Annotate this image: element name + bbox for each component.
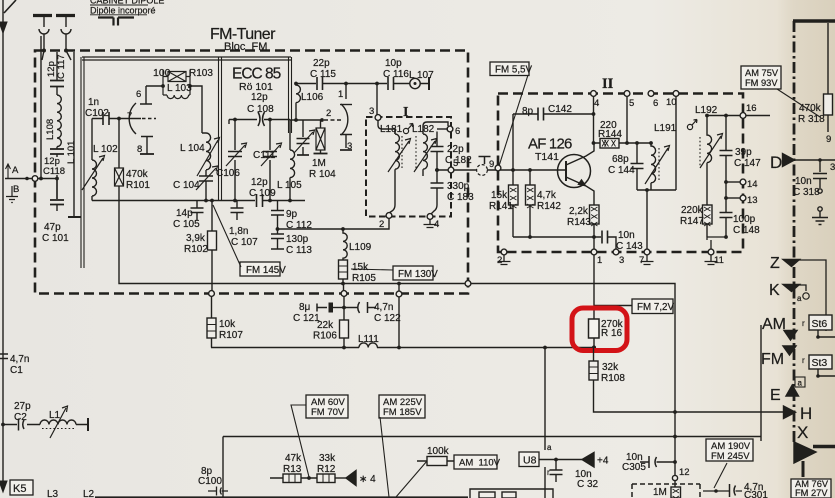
C113 leads and end bar xyxy=(271,229,284,249)
resistor R144 body with xxx xyxy=(600,139,619,149)
wire node399 drop to bus xyxy=(398,284,400,348)
node circle on tuner bottom at R102 xyxy=(209,291,215,297)
ground under node 11 xyxy=(705,255,718,265)
FM tuner shield dashed enclosure xyxy=(35,51,468,294)
junction C147 bottom xyxy=(724,180,728,184)
svg-text:C 117: C 117 xyxy=(56,54,67,79)
svg-text:4,7n: 4,7n xyxy=(10,354,29,365)
svg-text:5: 5 xyxy=(453,158,458,169)
capacitor C105 plates xyxy=(191,208,204,213)
inductor L104 xyxy=(202,133,211,170)
R105 inner stripes xyxy=(339,266,348,272)
svg-text:1: 1 xyxy=(338,89,343,100)
svg-text:R103: R103 xyxy=(189,68,213,79)
node circle 6 on box I xyxy=(447,126,453,132)
inner shield partition double line xyxy=(219,57,222,200)
svg-text:B: B xyxy=(13,184,19,195)
emitter arrowhead xyxy=(578,180,586,187)
svg-text:FM 245V: FM 245V xyxy=(711,451,750,462)
node circle 4 on box I bottom xyxy=(427,214,433,220)
wire C102 left drop to L102 xyxy=(91,119,93,161)
svg-text:R108: R108 xyxy=(601,373,625,384)
male adjust symbol in box II xyxy=(687,124,692,129)
junction R106 bottom on supply bus xyxy=(342,346,346,350)
inductor L192 xyxy=(707,116,712,206)
svg-text:C 108: C 108 xyxy=(247,104,274,115)
pointer line FM 145V xyxy=(213,205,241,267)
node circle 1 on box II bottom xyxy=(591,249,597,255)
wire L103 right lead down to L104 xyxy=(190,86,202,133)
wire: anode row y=83.5 xyxy=(296,83,429,85)
junction L103 right node xyxy=(188,84,192,88)
node circle 14 on box II right xyxy=(740,179,746,185)
svg-text:R 16: R 16 xyxy=(601,328,623,339)
junction L105 bottom xyxy=(288,199,292,203)
svg-text:K5: K5 xyxy=(13,483,26,495)
R147 bottom lead xyxy=(706,224,708,237)
node circle 11 on box II bottom xyxy=(708,249,714,255)
capacitor C144 branch xyxy=(636,143,638,190)
svg-text:2: 2 xyxy=(497,255,502,266)
capacitor C105 stub xyxy=(196,201,198,221)
A node circle on box edge xyxy=(32,176,38,182)
capacitor C2 series plates xyxy=(19,419,25,431)
svg-text:AF 126: AF 126 xyxy=(528,136,572,153)
capacitor C101 plates xyxy=(50,200,64,205)
L107 core symbol circle xyxy=(410,78,420,88)
svg-text:R106: R106 xyxy=(313,331,337,342)
capacitor C305 plates xyxy=(649,456,657,468)
junction caps row xyxy=(342,306,346,310)
wire: FM7,2V pointer wire xyxy=(594,305,632,307)
L192 trimmer arrow xyxy=(700,134,723,169)
A input arrow glyph xyxy=(6,164,11,178)
junction AGC vertical at bottom bus xyxy=(673,435,677,439)
C182 column leads xyxy=(436,132,438,184)
svg-text:6: 6 xyxy=(653,98,658,109)
capacitor C109 series plates on grid bus xyxy=(257,194,263,207)
junction R144 left node xyxy=(592,141,596,145)
svg-text:10n: 10n xyxy=(618,230,635,241)
node circle 5 on box II top xyxy=(624,91,630,97)
inner shield box top double line xyxy=(82,57,291,60)
triode2 cathode bar and pin3 lead xyxy=(340,135,352,149)
R105 bottom lead xyxy=(342,279,344,284)
resistor R108 body xyxy=(589,361,598,380)
triode1 grid-cap pin6 lead xyxy=(140,86,152,104)
resistor 100k body xyxy=(427,457,447,466)
svg-text:C 101: C 101 xyxy=(42,233,69,244)
variable capacitor C106 branch xyxy=(234,119,236,201)
C110 plates xyxy=(297,139,310,144)
wire C121 node drop xyxy=(343,297,345,308)
wire: IF output row y=170 xyxy=(437,169,566,171)
svg-text:FM 145V: FM 145V xyxy=(246,265,286,276)
R142 leads xyxy=(529,170,531,237)
capacitor C102 plates xyxy=(103,112,109,125)
svg-text:C 143: C 143 xyxy=(616,241,643,252)
tank bottom wire xyxy=(637,189,676,191)
capacitor C121 electrolytic plates xyxy=(317,304,327,312)
R144 leads xyxy=(594,142,652,144)
svg-text:1: 1 xyxy=(597,255,602,266)
svg-text:12p: 12p xyxy=(251,92,268,103)
svg-text:47k: 47k xyxy=(285,453,302,464)
C121 lead to junction xyxy=(333,307,344,309)
svg-text:2,2k: 2,2k xyxy=(569,206,589,217)
svg-text:St6: St6 xyxy=(812,318,828,330)
wire: R108 output to H arrow y=412 xyxy=(594,380,784,412)
C110 bottom bar xyxy=(297,154,309,156)
svg-text:R 104: R 104 xyxy=(309,169,336,180)
top-left feeder arrowhead xyxy=(4,0,16,13)
svg-text:12p: 12p xyxy=(251,177,268,188)
junction node5 column at R144 xyxy=(625,141,629,145)
resistor R82 body with xxx xyxy=(671,487,681,498)
grid dash of triode2 xyxy=(324,119,342,121)
pointer line AM 75V to R318 xyxy=(777,89,820,117)
svg-text:FM: FM xyxy=(761,351,784,368)
supply arrow at U8 row xyxy=(582,453,594,468)
a-box near K xyxy=(803,293,809,299)
svg-text:C301: C301 xyxy=(744,490,768,498)
wire C102 row xyxy=(92,118,120,120)
inductor L111 series on supply bus xyxy=(359,343,377,348)
wire node6 to C182 column xyxy=(437,128,448,130)
thick lead from X arrow to corner xyxy=(813,445,835,448)
L192 core dotted xyxy=(699,137,701,166)
wire: D row y=160 xyxy=(794,159,835,161)
L182 trimmer arrow xyxy=(414,139,437,173)
resistor R107 body xyxy=(207,318,216,338)
node circle 10 on box II top xyxy=(673,91,679,97)
junction base row at R142 xyxy=(528,168,532,172)
voltage box FM 5,5V xyxy=(490,62,529,76)
St6 connector box xyxy=(809,315,832,330)
tuning unit I dashed enclosure xyxy=(366,117,451,217)
svg-text:R142: R142 xyxy=(537,201,561,212)
svg-text:A: A xyxy=(12,165,19,176)
svg-text:L 105: L 105 xyxy=(277,180,302,191)
svg-text:100p: 100p xyxy=(733,214,756,225)
svg-text:11: 11 xyxy=(714,255,724,266)
variable capacitor C110 branch xyxy=(302,120,304,155)
L191 trimmer arrow xyxy=(645,146,670,185)
C106 trimmer arrow xyxy=(226,143,247,166)
svg-text:C118: C118 xyxy=(43,166,65,177)
svg-text:C 104: C 104 xyxy=(173,180,200,191)
capacitor C148 branch xyxy=(725,182,727,237)
ground below C318 xyxy=(812,218,828,225)
svg-text:L108: L108 xyxy=(45,119,56,140)
ground under node 7 xyxy=(641,255,654,265)
svg-text:I: I xyxy=(403,105,408,120)
wire: vertical drop x=223 to bottom modules xyxy=(222,437,224,498)
voltage box FM 145V xyxy=(240,262,280,276)
junction L1 tap xyxy=(1,423,5,427)
svg-text:L111: L111 xyxy=(358,334,379,345)
svg-text:C 113: C 113 xyxy=(286,245,312,256)
test point T probe at node 9 xyxy=(479,157,491,165)
svg-text:FM 27V: FM 27V xyxy=(795,488,828,498)
R13 leads xyxy=(270,477,317,479)
wire L181 bottom to node 2 xyxy=(389,173,395,213)
junction grid row left end xyxy=(294,118,298,122)
node circle 16 on box II right xyxy=(740,113,746,119)
wire C142 vertical to base row xyxy=(512,114,514,170)
svg-text:7: 7 xyxy=(127,111,132,122)
wire tank bottom to node 7 xyxy=(646,190,648,249)
capacitor C183 plates xyxy=(431,183,444,188)
junction R102 top xyxy=(210,199,214,203)
capacitor C147 branch xyxy=(725,116,727,183)
capacitor C32 plates xyxy=(550,470,563,475)
terminal bar after L107 xyxy=(428,77,430,90)
svg-text:R144: R144 xyxy=(598,129,622,140)
capacitor C116 plates xyxy=(388,77,394,90)
C318 connector pins xyxy=(818,189,822,193)
svg-text:3: 3 xyxy=(369,106,374,117)
svg-text:8: 8 xyxy=(137,144,142,155)
svg-text:r: r xyxy=(802,356,805,365)
svg-text:6: 6 xyxy=(455,126,460,137)
svg-text:C305: C305 xyxy=(622,462,646,473)
svg-text:10k: 10k xyxy=(219,319,236,330)
svg-text:a: a xyxy=(797,294,802,303)
inductor L103 bumps xyxy=(163,95,190,99)
resistor R101 body with X xyxy=(115,168,124,186)
svg-text:10: 10 xyxy=(666,97,677,108)
resistor R105 body xyxy=(339,260,348,279)
small terminal rects in bottom box xyxy=(479,492,495,498)
ground under node 2 xyxy=(498,255,511,265)
svg-text:130p: 130p xyxy=(286,234,309,245)
svg-text:100k: 100k xyxy=(427,446,450,457)
AF126 emitter lead with arrow xyxy=(566,177,594,205)
wire C108 row xyxy=(229,119,290,121)
wire: connector column x=545 a/r xyxy=(544,348,546,498)
triode 1 envelope arc xyxy=(129,103,136,134)
capacitor C122 plates xyxy=(358,302,368,313)
voltage box AM 225V / FM 185V xyxy=(379,395,425,418)
triode1 grid dash xyxy=(142,118,156,120)
pointer line AM 60V (stub and diagonal) xyxy=(291,405,309,477)
node circle 3 on box II bottom xyxy=(613,249,619,255)
R104 bottom bar xyxy=(314,153,328,155)
node circle on tuner bottom at 399 xyxy=(396,291,402,297)
C111 trimmer arrow xyxy=(261,143,282,166)
R103 leads xyxy=(163,70,190,95)
terminal bar under L101 xyxy=(68,216,81,218)
svg-text:C 112: C 112 xyxy=(286,220,312,231)
svg-text:3: 3 xyxy=(830,162,835,173)
junction on D row xyxy=(818,158,822,162)
svg-text:C100: C100 xyxy=(198,476,222,487)
svg-text:8μ: 8μ xyxy=(299,302,311,313)
wire L182 top to node 6 xyxy=(423,122,448,130)
svg-text:C 122: C 122 xyxy=(374,313,401,324)
C143 right lead to node 3 xyxy=(608,237,617,249)
svg-text:L 101: L 101 xyxy=(66,141,77,164)
svg-text:220k: 220k xyxy=(681,205,704,216)
inductor L182 with core dashes xyxy=(423,130,427,176)
wire: antenna right leg x=74 xyxy=(73,52,75,217)
triode 2 envelope arc xyxy=(341,104,348,135)
L1 core dotted xyxy=(42,428,74,430)
svg-text:T141: T141 xyxy=(535,151,559,163)
svg-text:+4: +4 xyxy=(597,456,609,467)
connector arrow FM xyxy=(783,346,796,355)
svg-text:2: 2 xyxy=(326,108,331,119)
svg-text:9: 9 xyxy=(489,159,494,170)
svg-text:C 105: C 105 xyxy=(173,219,200,230)
resistor R103 bowtie body xyxy=(168,72,186,82)
svg-text:22p: 22p xyxy=(313,58,330,69)
svg-text:C 318: C 318 xyxy=(793,187,820,198)
R12 lead to arrow xyxy=(335,477,346,479)
L181 core dotted line xyxy=(401,136,403,168)
svg-text:1n: 1n xyxy=(88,97,99,108)
svg-text:L182: L182 xyxy=(412,124,435,135)
capacitor C182 plates xyxy=(431,147,444,152)
wire node14 row xyxy=(726,181,740,183)
node circle 3 on box I xyxy=(375,115,381,121)
svg-text:C 182: C 182 xyxy=(445,155,472,166)
voltage box AM 60V / FM 70V xyxy=(306,395,348,418)
svg-text:47p: 47p xyxy=(44,222,61,233)
junction L106 top xyxy=(294,82,298,86)
capacitor C115 plates xyxy=(317,77,323,90)
capacitor C301 plates xyxy=(730,484,736,497)
R143 bottom lead xyxy=(593,224,595,249)
node circle 13 on box II right xyxy=(740,195,746,201)
C183 lead to node 4 xyxy=(431,188,437,214)
node circle 6 on box II top xyxy=(648,91,654,97)
svg-text:39p: 39p xyxy=(735,147,752,158)
wire: A input row xyxy=(5,178,32,180)
svg-text:22k: 22k xyxy=(317,320,334,331)
svg-text:33k: 33k xyxy=(319,453,336,464)
junction C111 bottom xyxy=(268,199,272,203)
junction C144 top xyxy=(635,141,639,145)
junction C148 top on node13 row xyxy=(724,196,728,200)
capacitor C142 plates xyxy=(538,108,544,121)
junction C108 row at C111 xyxy=(268,118,272,122)
resistor R108 leads xyxy=(593,348,595,362)
inductor L108 xyxy=(57,95,61,147)
capacitor C148 plates xyxy=(720,213,733,218)
junction C108 row left xyxy=(233,118,237,122)
voltage box AM 76V / FM 27V xyxy=(791,479,831,498)
chassis border thick top-right corner xyxy=(793,19,835,23)
resistor R142 body with xxx xyxy=(526,185,536,205)
small dipole symbol (dipole incorpore) xyxy=(98,18,134,26)
junction C182 on output row xyxy=(435,168,439,172)
triode1 pin8 ground bar xyxy=(140,153,154,155)
node circle 7 on box II bottom xyxy=(644,249,650,255)
svg-text:C106: C106 xyxy=(216,168,240,179)
svg-text:C 116: C 116 xyxy=(383,69,409,80)
resistor R147 body with xxx xyxy=(703,205,713,224)
capacitor C117 plates xyxy=(50,81,64,87)
St6 stub wire with junction xyxy=(818,330,835,337)
wire: antenna left leg x=41 xyxy=(40,36,42,179)
connector arrow H xyxy=(784,406,796,419)
svg-text:R143: R143 xyxy=(567,217,591,228)
connector arrow D xyxy=(783,154,795,167)
voltage box AM 110V xyxy=(454,455,497,469)
svg-text:Dipôle incorporé: Dipôle incorporé xyxy=(90,6,156,16)
svg-text:L 102: L 102 xyxy=(93,144,118,155)
wire: node16 row y=115.5 xyxy=(707,115,770,117)
svg-text:3,9k: 3,9k xyxy=(186,233,206,244)
dipole right down-lead with insulator hook xyxy=(61,17,71,51)
junction at antenna leg xyxy=(39,177,43,181)
svg-text:St3: St3 xyxy=(812,357,828,369)
wire C108 start drop xyxy=(228,120,230,125)
svg-text:1M: 1M xyxy=(653,487,667,498)
svg-text:10n: 10n xyxy=(795,176,812,187)
connector arrow E xyxy=(786,385,799,396)
supply arrow after R12 xyxy=(346,471,356,486)
connector big arrow X output xyxy=(794,442,816,463)
svg-text:R107: R107 xyxy=(219,330,243,341)
capacitor C305 lead xyxy=(640,461,675,463)
wire: L1 branch y=424.5 xyxy=(3,424,88,426)
svg-text:D: D xyxy=(770,153,782,172)
dipole left down-lead with insulator hook xyxy=(39,17,49,51)
svg-text:L 103: L 103 xyxy=(167,83,192,94)
svg-text:a: a xyxy=(547,443,552,452)
wire node4 column xyxy=(593,96,595,143)
junction triode2 anode node xyxy=(344,82,348,86)
svg-text:6: 6 xyxy=(136,89,141,100)
junction R13/R12 node xyxy=(307,476,311,480)
connector arrow Z xyxy=(783,260,800,267)
voltage box AM 190V / FM 245V xyxy=(706,439,753,461)
svg-text:r: r xyxy=(802,319,805,328)
svg-text:14: 14 xyxy=(747,179,758,190)
AF126 base bar xyxy=(565,161,567,181)
junction R105 on AGC bus xyxy=(341,282,345,286)
svg-text:C 144: C 144 xyxy=(608,165,635,176)
pointer line FM 5,5V to node 9 xyxy=(499,75,528,166)
connector arrow AM xyxy=(784,331,797,341)
voltage box FM 130V xyxy=(393,266,433,280)
svg-text:R13: R13 xyxy=(283,464,302,475)
svg-text:L2: L2 xyxy=(83,489,95,498)
wire C142 row xyxy=(513,113,594,115)
svg-text:2: 2 xyxy=(379,219,384,230)
junction node1 column top xyxy=(375,82,379,86)
junction bus at connector column xyxy=(543,346,547,350)
svg-text:27p: 27p xyxy=(14,401,31,412)
svg-text:C 109: C 109 xyxy=(249,188,276,199)
svg-text:Z: Z xyxy=(770,255,780,272)
svg-text:14p: 14p xyxy=(176,208,193,219)
dipole half-element left xyxy=(33,14,52,17)
svg-text:8p: 8p xyxy=(522,106,534,117)
svg-text:∗ 4: ∗ 4 xyxy=(359,474,376,485)
node circle 4 on box II top xyxy=(591,91,597,97)
wire from anode row down to box I node 3 xyxy=(376,84,378,115)
ground under node 4 xyxy=(424,220,437,228)
node circle 5 on box I edge xyxy=(448,167,454,173)
inner shield box left double edge xyxy=(81,57,84,268)
svg-text:L106: L106 xyxy=(301,92,324,103)
wire: antenna C117/L108/C118 column x=57 xyxy=(56,52,58,199)
triode2 pin3 bar xyxy=(340,149,352,151)
